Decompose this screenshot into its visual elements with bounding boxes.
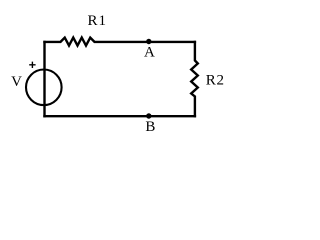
svg-text:A: A [144,44,155,60]
svg-text:V: V [11,74,22,90]
svg-text:2: 2 [216,73,224,89]
svg-text:R: R [87,13,97,29]
svg-text:R: R [206,73,216,89]
svg-text:1: 1 [99,13,107,29]
svg-text:B: B [145,119,155,135]
